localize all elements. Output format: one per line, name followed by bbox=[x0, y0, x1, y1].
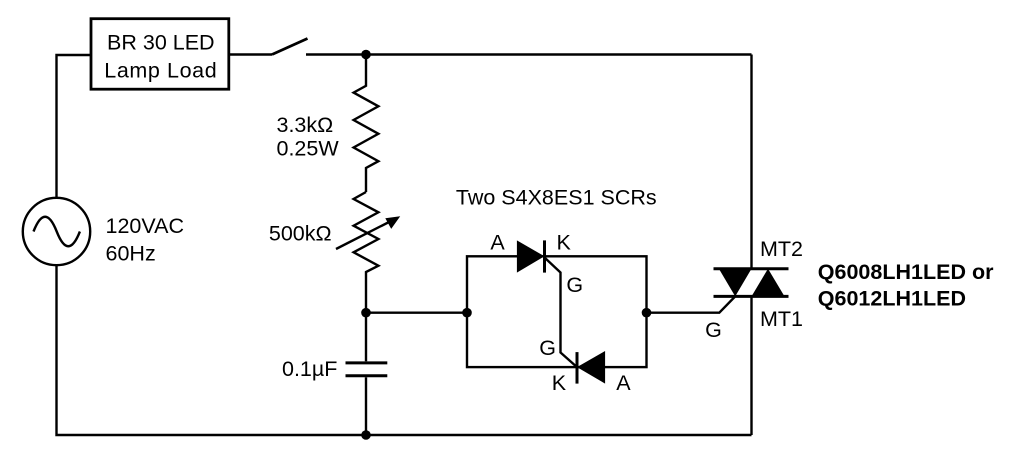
svg-text:60Hz: 60Hz bbox=[106, 241, 156, 265]
svg-text:120VAC: 120VAC bbox=[106, 214, 184, 238]
svg-text:BR 30 LED: BR 30 LED bbox=[107, 31, 215, 55]
svg-text:G: G bbox=[539, 336, 556, 360]
svg-text:MT2: MT2 bbox=[760, 237, 803, 261]
svg-text:G: G bbox=[705, 318, 722, 342]
svg-text:Lamp Load: Lamp Load bbox=[104, 59, 217, 83]
svg-text:G: G bbox=[566, 273, 583, 297]
svg-text:Q6008LH1LED or: Q6008LH1LED or bbox=[818, 260, 994, 284]
svg-text:A: A bbox=[490, 231, 505, 255]
svg-text:Two S4X8ES1 SCRs: Two S4X8ES1 SCRs bbox=[456, 186, 657, 210]
svg-text:0.1µF: 0.1µF bbox=[282, 357, 337, 381]
svg-text:K: K bbox=[557, 231, 572, 255]
svg-text:500kΩ: 500kΩ bbox=[269, 221, 332, 245]
svg-text:3.3kΩ: 3.3kΩ bbox=[277, 113, 334, 137]
svg-text:MT1: MT1 bbox=[760, 307, 803, 331]
svg-text:0.25W: 0.25W bbox=[277, 136, 340, 160]
svg-text:Q6012LH1LED: Q6012LH1LED bbox=[818, 287, 966, 311]
svg-text:K: K bbox=[552, 371, 567, 395]
svg-text:A: A bbox=[616, 371, 631, 395]
